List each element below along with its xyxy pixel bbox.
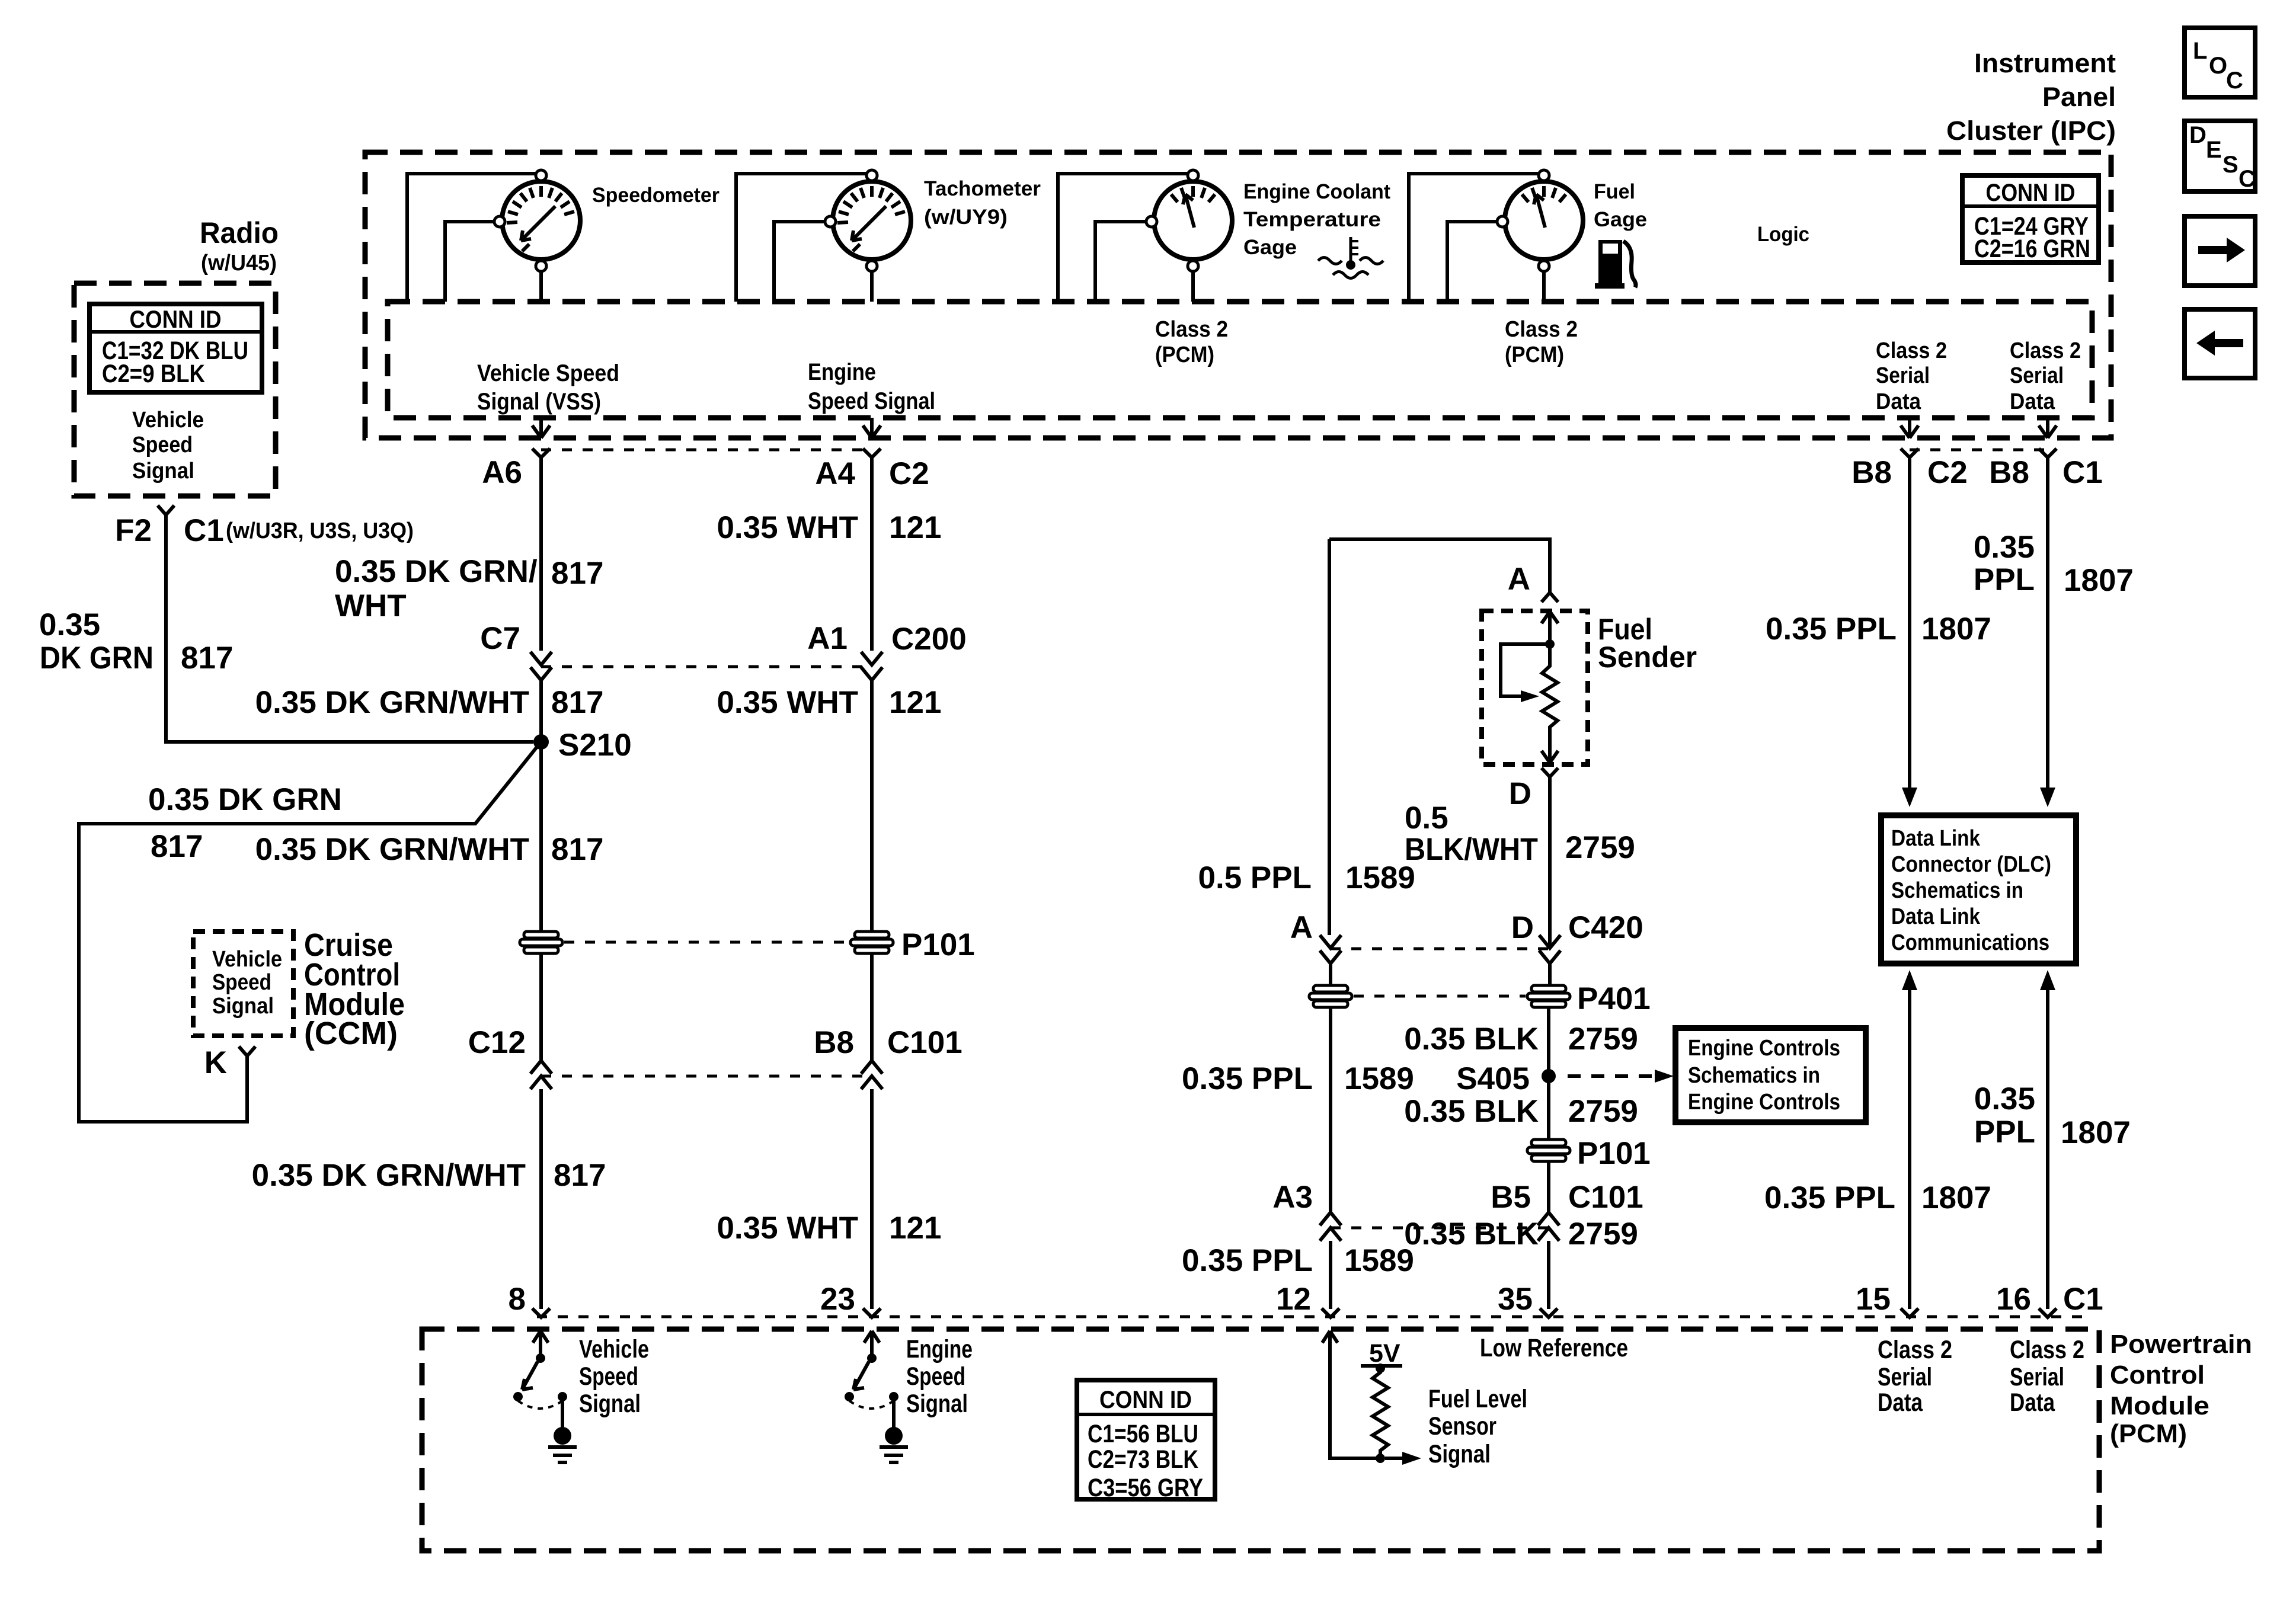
svg-text:817: 817 [551,556,603,591]
svg-text:B8: B8 [814,1025,854,1060]
svg-text:Data: Data [2010,1388,2055,1417]
wire fuel gage top lead [1409,174,1539,302]
svg-text:Sender: Sender [1598,641,1697,674]
wire left PPL: P401 to A3 [1329,1007,1332,1212]
arrow IPC exit engine speed [863,418,881,438]
svg-text:121: 121 [889,685,941,720]
connector A1 double chevron [861,652,882,680]
svg-text:P101: P101 [901,927,975,962]
inline connector P101 on BLK wire [1527,1140,1570,1161]
wire PPL left branch down [1328,539,1331,935]
svg-text:0.35: 0.35 [1974,530,2035,565]
connector dashed line A-D (C420) [1331,948,1549,950]
wire BLK: P101 to B5 [1547,1161,1550,1212]
svg-text:Fuel Level: Fuel Level [1428,1385,1527,1413]
svg-text:Sensor: Sensor [1428,1412,1496,1441]
svg-text:C1=56 BLU: C1=56 BLU [1088,1420,1198,1448]
svg-text:C: C [2226,68,2243,94]
pin dots coolant gauge [1188,170,1198,181]
arrow IPC exit class2 left [1901,418,1918,438]
box Data Link Connector (DLC) [1881,815,2076,964]
svg-text:A: A [1508,562,1530,597]
connector fork pin 8 [532,1308,550,1317]
svg-text:0.5 PPL: 0.5 PPL [1198,860,1312,895]
icon fuel pump symbol [1595,240,1636,289]
svg-text:S: S [2223,152,2239,178]
svg-text:12: 12 [1276,1282,1311,1317]
svg-text:Schematics in: Schematics in [1891,878,2023,903]
svg-text:Serial: Serial [2010,1363,2064,1391]
resistor fuel sender [1542,644,1558,747]
wire W2 engine speed: A4 fork to A1 [870,457,874,651]
svg-text:DK GRN: DK GRN [40,641,154,676]
svg-text:23: 23 [820,1282,855,1317]
inline connector P401 right [1527,985,1570,1007]
svg-text:0.35: 0.35 [39,607,100,642]
connector B8 double chevron up [861,1061,882,1089]
svg-text:0.35 WHT: 0.35 WHT [717,510,858,545]
svg-text:16: 16 [1996,1282,2031,1317]
junction dot (fuel sender) [1545,639,1555,649]
wire speedometer bottom lead [539,271,543,302]
svg-text:1589: 1589 [1344,1243,1414,1278]
wire speedometer left lead [445,222,494,302]
svg-text:C101: C101 [1568,1180,1643,1215]
svg-text:Tachometer: Tachometer [924,177,1041,200]
svg-text:CONN ID: CONN ID [1099,1385,1192,1413]
svg-text:C1: C1 [184,513,224,548]
IPC outer dashed box [365,152,2111,438]
gauge G3 engine coolant temperature gage [1154,181,1232,260]
svg-text:Speedometer: Speedometer [592,184,720,207]
connector A double chevron down [1320,935,1341,964]
svg-text:C420: C420 [1568,910,1643,945]
svg-text:Vehicle: Vehicle [579,1335,649,1363]
svg-text:Instrument: Instrument [1974,48,2116,78]
gauge G1 speedometer [502,181,580,260]
svg-text:Speed: Speed [212,970,271,995]
svg-text:Gage: Gage [1243,236,1297,259]
svg-text:Gage: Gage [1594,208,1647,231]
wire W1: C12 to PCM pin 8 [539,1089,543,1309]
connector dashed line P101-P101 [564,941,849,944]
svg-text:817: 817 [551,832,603,867]
icon coolant temperature symbol [1318,237,1383,279]
svg-text:Serial: Serial [2010,363,2064,388]
svg-text:121: 121 [889,510,941,545]
wire class2 right: DLC to pin 16 [2046,990,2049,1309]
svg-text:Control: Control [2110,1361,2205,1390]
connector D double chevron down [1539,935,1560,964]
inline connector P101 on wire W2 [850,932,893,953]
svg-text:2759: 2759 [1568,1094,1638,1129]
svg-text:Schematics in: Schematics in [1688,1063,1820,1088]
svg-text:0.35 PPL: 0.35 PPL [1764,1180,1895,1215]
svg-text:C3=56 GRY: C3=56 GRY [1088,1474,1203,1502]
svg-text:0.35 DK GRN/WHT: 0.35 DK GRN/WHT [255,685,529,720]
svg-text:Class 2: Class 2 [1505,317,1578,342]
wire W2: P101 to B8 [870,953,874,1061]
svg-text:Class 2: Class 2 [2010,338,2081,363]
5V supply bar [1361,1364,1402,1368]
svg-text:A3: A3 [1272,1180,1313,1215]
connector fork A4 [863,449,881,457]
svg-text:2759: 2759 [1568,1022,1638,1057]
svg-text:Fuel: Fuel [1594,180,1635,203]
svg-text:C: C [2239,166,2256,192]
svg-text:121: 121 [889,1211,941,1246]
svg-text:PPL: PPL [1974,562,2035,597]
svg-text:Serial: Serial [1878,1363,1932,1391]
connector fork pin 15 [1901,1308,1918,1317]
inline connector P401 left [1309,985,1352,1007]
svg-text:Signal: Signal [906,1390,968,1418]
svg-text:0.35 BLK: 0.35 BLK [1404,1022,1539,1057]
svg-text:C2=16 GRN: C2=16 GRN [1974,235,2090,263]
svg-text:Speed Signal: Speed Signal [808,388,935,414]
svg-text:0.35 WHT: 0.35 WHT [717,685,858,720]
svg-text:0.35 DK GRN: 0.35 DK GRN [148,782,342,817]
svg-text:B8: B8 [1989,455,2029,490]
svg-text:Data Link: Data Link [1891,826,1981,851]
svg-text:0.35 WHT: 0.35 WHT [717,1211,858,1246]
PCM dashed box [422,1329,2099,1551]
svg-text:1807: 1807 [1921,1180,1991,1215]
gauge G4 fuel gage [1505,181,1583,260]
svg-text:Connector (DLC): Connector (DLC) [1891,852,2051,877]
connector arrow out of fuel sender [1542,747,1558,763]
svg-text:Speed: Speed [579,1362,638,1391]
icon box left arrow [2185,309,2255,378]
connector dashed line P401 [1354,995,1526,998]
connector dashed line B8-B8 [1910,449,2048,452]
svg-text:Communications: Communications [1891,930,2049,955]
connector fork K [239,1046,255,1056]
svg-text:Engine Controls: Engine Controls [1688,1090,1840,1115]
svg-text:A1: A1 [807,621,848,656]
svg-text:Data: Data [2010,389,2055,414]
svg-text:Signal: Signal [579,1390,641,1418]
wire fuel sender D to C420 [1548,777,1552,947]
svg-text:E: E [2206,137,2222,163]
arrow fuel level sensor signal [1385,1457,1403,1460]
svg-text:Class 2: Class 2 [2010,1336,2084,1364]
IPC inner dashed box [388,302,2092,418]
connector fork pin 12 [1322,1308,1339,1317]
svg-text:A6: A6 [482,455,522,490]
svg-text:Low Reference: Low Reference [1480,1334,1628,1362]
ESS switch symbol in PCM [845,1331,908,1462]
svg-text:0.35 PPL: 0.35 PPL [1182,1061,1313,1096]
svg-text:C12: C12 [468,1025,526,1060]
svg-text:0.5: 0.5 [1405,801,1448,836]
svg-text:Engine: Engine [906,1335,973,1363]
svg-text:CONN ID: CONN ID [1986,178,2076,206]
svg-text:C2: C2 [1927,455,1968,490]
radio CONN ID table [89,304,262,392]
svg-text:(w/U45): (w/U45) [201,251,277,276]
wire W2: B8 to PCM pin 23 [870,1089,874,1309]
svg-text:Vehicle: Vehicle [132,408,204,433]
wire W2: A1 to P101 [870,680,874,932]
svg-text:Serial: Serial [1876,363,1930,388]
arrow IPC exit VSS [532,418,550,438]
resistor fuel level sensor [1373,1368,1388,1455]
svg-text:0.35 DK GRN/: 0.35 DK GRN/ [335,554,538,589]
svg-text:Temperature: Temperature [1243,208,1381,231]
IPC CONN ID table [1962,175,2099,263]
connector A3 double chevron up [1320,1212,1341,1241]
wire fuel gage bottom lead [1542,271,1546,302]
connector fork A6 [532,449,550,457]
wire coolant gauge top lead [1058,174,1188,302]
wire coolant gauge bottom lead [1191,271,1195,302]
PCM CONN ID table [1077,1380,1215,1502]
svg-text:Engine Controls: Engine Controls [1688,1036,1840,1061]
svg-text:A: A [1290,910,1313,945]
svg-text:0.35 BLK: 0.35 BLK [1404,1217,1539,1251]
svg-text:K: K [204,1045,227,1080]
svg-text:1807: 1807 [1921,612,1991,646]
svg-text:15: 15 [1856,1282,1891,1317]
svg-text:Class 2: Class 2 [1155,317,1228,342]
wire class2 left: DLC to pin 15 [1908,990,1911,1309]
pin dots fuel gage [1539,170,1549,181]
svg-text:P101: P101 [1577,1136,1651,1171]
icon box right arrow [2185,216,2255,286]
svg-text:Cluster (IPC): Cluster (IPC) [1946,116,2116,146]
svg-text:817: 817 [551,685,603,720]
svg-text:Speed: Speed [132,433,193,457]
svg-text:Signal (VSS): Signal (VSS) [477,389,601,415]
radio dashed box [74,283,276,496]
svg-text:B5: B5 [1491,1180,1531,1215]
connector C12 double chevron up [530,1061,552,1089]
svg-text:1589: 1589 [1344,1061,1414,1096]
svg-text:(PCM): (PCM) [1505,343,1564,367]
svg-text:Engine: Engine [808,359,876,385]
svg-text:C7: C7 [480,621,520,656]
svg-text:(PCM): (PCM) [1155,343,1214,367]
svg-text:Logic: Logic [1757,223,1809,246]
svg-text:C200: C200 [891,622,967,657]
svg-text:1589: 1589 [1345,860,1415,895]
arrow pin 12 into PCM [1322,1331,1338,1343]
svg-text:S210: S210 [558,728,632,763]
svg-text:Module: Module [2110,1391,2209,1420]
wire class2 right: IPC to DLC [2046,457,2049,788]
wire left PPL: A to P401 [1329,964,1332,987]
svg-text:D: D [1509,776,1531,811]
svg-text:Class 2: Class 2 [1876,338,1947,363]
connector dashed line A6-A4 [541,449,872,452]
svg-text:0.35 DK GRN/WHT: 0.35 DK GRN/WHT [255,832,529,867]
fuel sender dashed box [1482,611,1588,764]
svg-text:817: 817 [181,641,233,676]
svg-text:Class 2: Class 2 [1878,1336,1952,1364]
wire W1: P101 to C12 [539,953,543,1061]
svg-text:S405: S405 [1456,1061,1530,1096]
svg-text:Signal: Signal [212,994,274,1019]
connector C7 double chevron [530,652,552,680]
svg-text:817: 817 [554,1158,606,1193]
connector dashed line C12-B8 [541,1075,872,1078]
junction dot S210 [533,734,549,750]
connector fork pin 16 [2039,1308,2057,1317]
svg-text:C2=73 BLK: C2=73 BLK [1088,1445,1198,1474]
svg-text:WHT: WHT [335,588,407,623]
svg-text:(PCM): (PCM) [2110,1419,2187,1448]
wire coolant gauge left lead [1095,222,1146,302]
svg-text:0.35: 0.35 [1974,1081,2035,1116]
VSS switch symbol in PCM [513,1331,577,1462]
box Engine Controls Schematics [1675,1028,1866,1122]
svg-text:2759: 2759 [1565,830,1635,865]
svg-text:0.35 PPL: 0.35 PPL [1766,612,1897,646]
svg-text:C2: C2 [889,456,929,491]
inline connector P101 on wire W1 [520,932,562,953]
wire radio to S210 [166,515,533,742]
connector dashed line A3-B5 [1331,1227,1549,1230]
connector fork pin 35 [1540,1308,1558,1317]
svg-text:O: O [2209,53,2227,79]
pin dots speedometer [536,170,546,181]
svg-text:CONN ID: CONN ID [130,305,222,333]
connector B5 double chevron up [1538,1212,1559,1241]
svg-text:C1: C1 [2062,455,2103,490]
fuel sender wiper arm [1501,644,1550,696]
svg-text:(w/UY9): (w/UY9) [924,206,1008,229]
svg-text:1807: 1807 [2064,563,2134,598]
svg-text:35: 35 [1498,1282,1533,1317]
svg-text:(CCM): (CCM) [304,1016,398,1051]
wire tachometer left lead [774,222,825,302]
svg-text:Data Link: Data Link [1891,904,1981,929]
svg-text:Powertrain: Powertrain [2110,1330,2252,1359]
svg-text:BLK/WHT: BLK/WHT [1405,832,1538,867]
svg-text:Panel: Panel [2042,82,2116,112]
svg-text:D: D [2189,122,2207,148]
wire left PPL: A3 to pin 12 [1329,1241,1332,1309]
svg-text:PPL: PPL [1974,1115,2035,1150]
svg-text:Data: Data [1876,389,1921,414]
connector dashed line PCM pins [537,1315,2089,1318]
svg-text:817: 817 [151,829,203,864]
icon box LOC [2185,28,2255,97]
connector fork pin 23 [863,1308,881,1317]
connector arrow into fuel sender [1542,612,1558,644]
svg-text:Data: Data [1878,1388,1923,1417]
connector fork A (fuel sender) [1542,593,1558,602]
svg-text:(w/U3R, U3S, U3Q): (w/U3R, U3S, U3Q) [226,518,414,543]
wire fuel gage left lead [1447,222,1497,302]
wire tachometer top lead [736,174,866,302]
wire speedometer top lead [407,174,536,302]
junction dot S405 [1542,1069,1556,1083]
wire PPL loop top [1329,539,1550,593]
svg-text:2759: 2759 [1568,1217,1638,1251]
wire class2 left: IPC to DLC [1908,457,1911,788]
CCM dashed box [193,932,293,1036]
svg-text:Speed: Speed [906,1362,965,1391]
gauge G2 tachometer [833,181,911,260]
connector fork B8/C2 [1901,449,1918,457]
svg-text:C2=9 BLK: C2=9 BLK [102,360,205,388]
svg-text:C1: C1 [2063,1282,2103,1317]
wire right BLK: P401 to P101 [1547,1007,1550,1140]
svg-text:Radio: Radio [200,216,279,249]
pin dots tachometer [866,170,877,181]
svg-text:0.35 DK GRN/WHT: 0.35 DK GRN/WHT [252,1158,526,1193]
svg-text:Vehicle Speed: Vehicle Speed [477,360,619,386]
connector fork B8/C1 [2039,449,2057,457]
svg-text:Signal: Signal [1428,1440,1491,1468]
wire right: D to P401 [1548,964,1552,985]
svg-text:0.35 PPL: 0.35 PPL [1182,1243,1313,1278]
svg-text:5V: 5V [1369,1339,1400,1368]
svg-text:A4: A4 [815,456,855,491]
svg-text:B8: B8 [1851,455,1892,490]
icon box DESC [2185,121,2256,192]
wire tachometer bottom lead [870,271,874,302]
wire diagonal S210 to CCM loop [79,745,538,1122]
svg-text:Engine Coolant: Engine Coolant [1243,180,1390,203]
svg-text:P401: P401 [1577,981,1651,1016]
svg-text:F2: F2 [115,513,152,548]
connector fork D [1542,768,1558,777]
wire BLK: B5 to pin 35 [1547,1241,1550,1309]
connector dashed line C7-A1 [541,665,872,668]
svg-text:Vehicle: Vehicle [212,947,282,972]
connector fork at radio F2/C1 [158,505,174,515]
svg-text:8: 8 [509,1282,526,1317]
svg-text:0.35 BLK: 0.35 BLK [1404,1094,1539,1129]
dashed arrow S405 to engine controls box [1568,1074,1654,1078]
svg-text:L: L [2193,38,2207,64]
wire W1 VSS vertical: A6 fork to C7 [539,457,543,651]
arrow IPC exit class2 right [2039,418,2057,438]
svg-text:1807: 1807 [2061,1115,2131,1150]
svg-text:C101: C101 [887,1025,962,1060]
svg-text:Signal: Signal [132,459,194,484]
svg-text:D: D [1511,910,1534,945]
wire W1: C7 to P101 [539,680,543,932]
